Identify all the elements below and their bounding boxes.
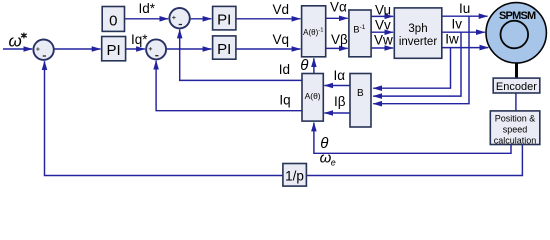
svg-text:calculation: calculation	[494, 135, 537, 145]
svg-text:SPMSM: SPMSM	[499, 10, 536, 22]
svg-text:PI: PI	[217, 41, 231, 58]
svg-text:ω: ω	[320, 150, 332, 167]
svg-text:Vd: Vd	[273, 2, 290, 17]
svg-text:Vw: Vw	[374, 33, 393, 48]
svg-text:Vα: Vα	[330, 0, 347, 15]
svg-text:Vβ: Vβ	[331, 32, 348, 47]
svg-text:1/p: 1/p	[285, 169, 304, 184]
svg-text:PI: PI	[107, 42, 121, 59]
svg-text:Iα: Iα	[334, 68, 346, 83]
svg-text:A(θ): A(θ)	[305, 91, 321, 101]
svg-text:Iβ: Iβ	[334, 94, 346, 109]
svg-text:B: B	[357, 88, 364, 99]
svg-text:θ: θ	[300, 57, 308, 74]
svg-text:Encoder: Encoder	[496, 81, 537, 93]
svg-text:speed: speed	[503, 125, 528, 135]
svg-text:e: e	[331, 158, 336, 168]
svg-text:Position &: Position &	[495, 114, 536, 124]
svg-text:Id*: Id*	[139, 1, 156, 16]
svg-text:Iq: Iq	[279, 93, 290, 108]
svg-text:inverter: inverter	[399, 36, 438, 48]
svg-text:0: 0	[109, 12, 117, 29]
svg-text:Iu: Iu	[459, 1, 470, 16]
svg-text:Iw: Iw	[445, 32, 459, 47]
svg-text:Iq*: Iq*	[131, 32, 148, 47]
svg-text:Iv: Iv	[452, 17, 463, 32]
svg-text:Vu: Vu	[375, 3, 391, 18]
svg-text:PI: PI	[217, 12, 231, 29]
svg-text:3ph: 3ph	[408, 23, 427, 35]
svg-text:Vv: Vv	[375, 18, 391, 33]
svg-text:Id: Id	[279, 62, 290, 77]
svg-text:ω: ω	[9, 32, 22, 51]
svg-text:Vq: Vq	[273, 32, 290, 47]
